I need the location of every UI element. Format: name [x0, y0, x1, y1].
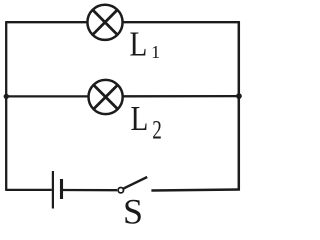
svg-text:1: 1 [151, 42, 160, 62]
wire top-left segment [6, 21, 86, 23]
svg-text:L: L [130, 25, 148, 64]
wire battery-to-switch segment [63, 189, 117, 191]
label L1 [130, 25, 161, 64]
wire top-right segment [123, 21, 239, 23]
wire bottom-left segment [6, 189, 52, 191]
battery long plate [52, 171, 54, 209]
node right junction [236, 93, 242, 99]
switch lever [123, 177, 147, 189]
svg-text:L: L [131, 99, 149, 138]
wire middle-left segment [6, 95, 88, 97]
svg-text:2: 2 [152, 116, 162, 145]
battery short plate [60, 179, 63, 199]
lamp L1 [87, 5, 122, 40]
wire bottom-right segment [151, 190, 240, 191]
label L2 [131, 99, 162, 145]
node left junction [4, 94, 9, 99]
wire left vertical [5, 21, 7, 191]
wire middle-right segment [123, 95, 239, 98]
switch pivot circle [118, 188, 123, 193]
svg-text:S: S [123, 192, 143, 227]
wire right vertical [238, 21, 241, 190]
lamp L2 [89, 80, 123, 114]
